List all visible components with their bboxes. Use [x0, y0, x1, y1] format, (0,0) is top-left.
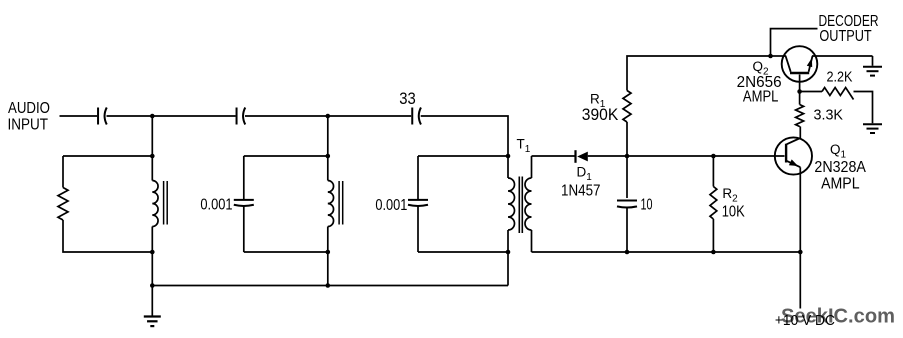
svg-text:AMPL: AMPL [743, 89, 779, 106]
svg-text:2.2K: 2.2K [827, 70, 853, 86]
svg-text:+10 V DC: +10 V DC [775, 313, 835, 329]
svg-text:3.3K: 3.3K [814, 108, 844, 124]
svg-text:0.001: 0.001 [375, 197, 407, 214]
svg-text:10: 10 [641, 197, 653, 214]
svg-text:AMPL: AMPL [821, 176, 860, 193]
svg-text:AUDIO: AUDIO [8, 100, 50, 117]
svg-text:0.001: 0.001 [200, 197, 232, 214]
svg-text:2N328A: 2N328A [814, 159, 866, 176]
svg-text:OUTPUT: OUTPUT [819, 28, 872, 45]
svg-text:33: 33 [399, 90, 416, 108]
svg-text:390K: 390K [582, 106, 619, 124]
svg-text:INPUT: INPUT [8, 117, 49, 134]
svg-text:10K: 10K [722, 204, 745, 221]
svg-text:1N457: 1N457 [561, 183, 601, 200]
